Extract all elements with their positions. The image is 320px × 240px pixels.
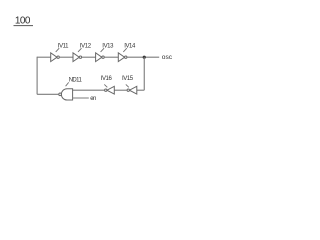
leader IV14 xyxy=(123,48,127,52)
wire IV12 to IV13 xyxy=(82,56,96,58)
svg-text:ND11: ND11 xyxy=(69,77,83,83)
wire IV11 to IV12 xyxy=(59,56,73,58)
leader IV16 xyxy=(104,84,107,87)
svg-text:100: 100 xyxy=(15,15,31,26)
wire IV14 to osc xyxy=(127,56,159,58)
inverter IV13 xyxy=(96,53,105,62)
wire: vertical right from junction xyxy=(143,57,145,90)
nand gate ND11 (faces left) xyxy=(59,89,73,100)
svg-text:IV12: IV12 xyxy=(80,44,92,50)
leader IV13 xyxy=(101,48,105,52)
wire: feedback vertical left xyxy=(36,57,38,95)
wire ND11 output to feedback xyxy=(37,93,59,95)
leader ND11 xyxy=(66,82,69,86)
wire: into IV15 xyxy=(137,89,144,91)
svg-text:IV11: IV11 xyxy=(58,44,69,50)
inverter IV14 xyxy=(118,53,127,62)
wire IV15 to IV16 xyxy=(114,89,127,91)
svg-text:IV15: IV15 xyxy=(122,76,134,82)
wire: top row into IV11 xyxy=(37,56,51,58)
svg-text:osc: osc xyxy=(162,54,173,61)
svg-text:IV13: IV13 xyxy=(102,44,114,50)
wire IV13 to IV14 xyxy=(104,56,118,58)
leader IV11 xyxy=(56,48,60,52)
wire IV16 to ND11 top input xyxy=(73,89,105,91)
inverter IV12 xyxy=(73,53,82,62)
figure label 100 xyxy=(14,15,34,26)
wire ND11 bottom input from en xyxy=(73,97,89,99)
svg-text:IV14: IV14 xyxy=(124,44,136,50)
svg-text:IV16: IV16 xyxy=(101,76,113,82)
leader IV12 xyxy=(78,48,82,52)
inverter IV11 xyxy=(51,53,60,62)
leader IV15 xyxy=(126,84,129,87)
svg-text:en: en xyxy=(90,96,96,102)
inverter IV16 (faces left) xyxy=(105,86,115,94)
junction dot xyxy=(143,56,146,59)
inverter IV15 (faces left) xyxy=(127,86,137,94)
